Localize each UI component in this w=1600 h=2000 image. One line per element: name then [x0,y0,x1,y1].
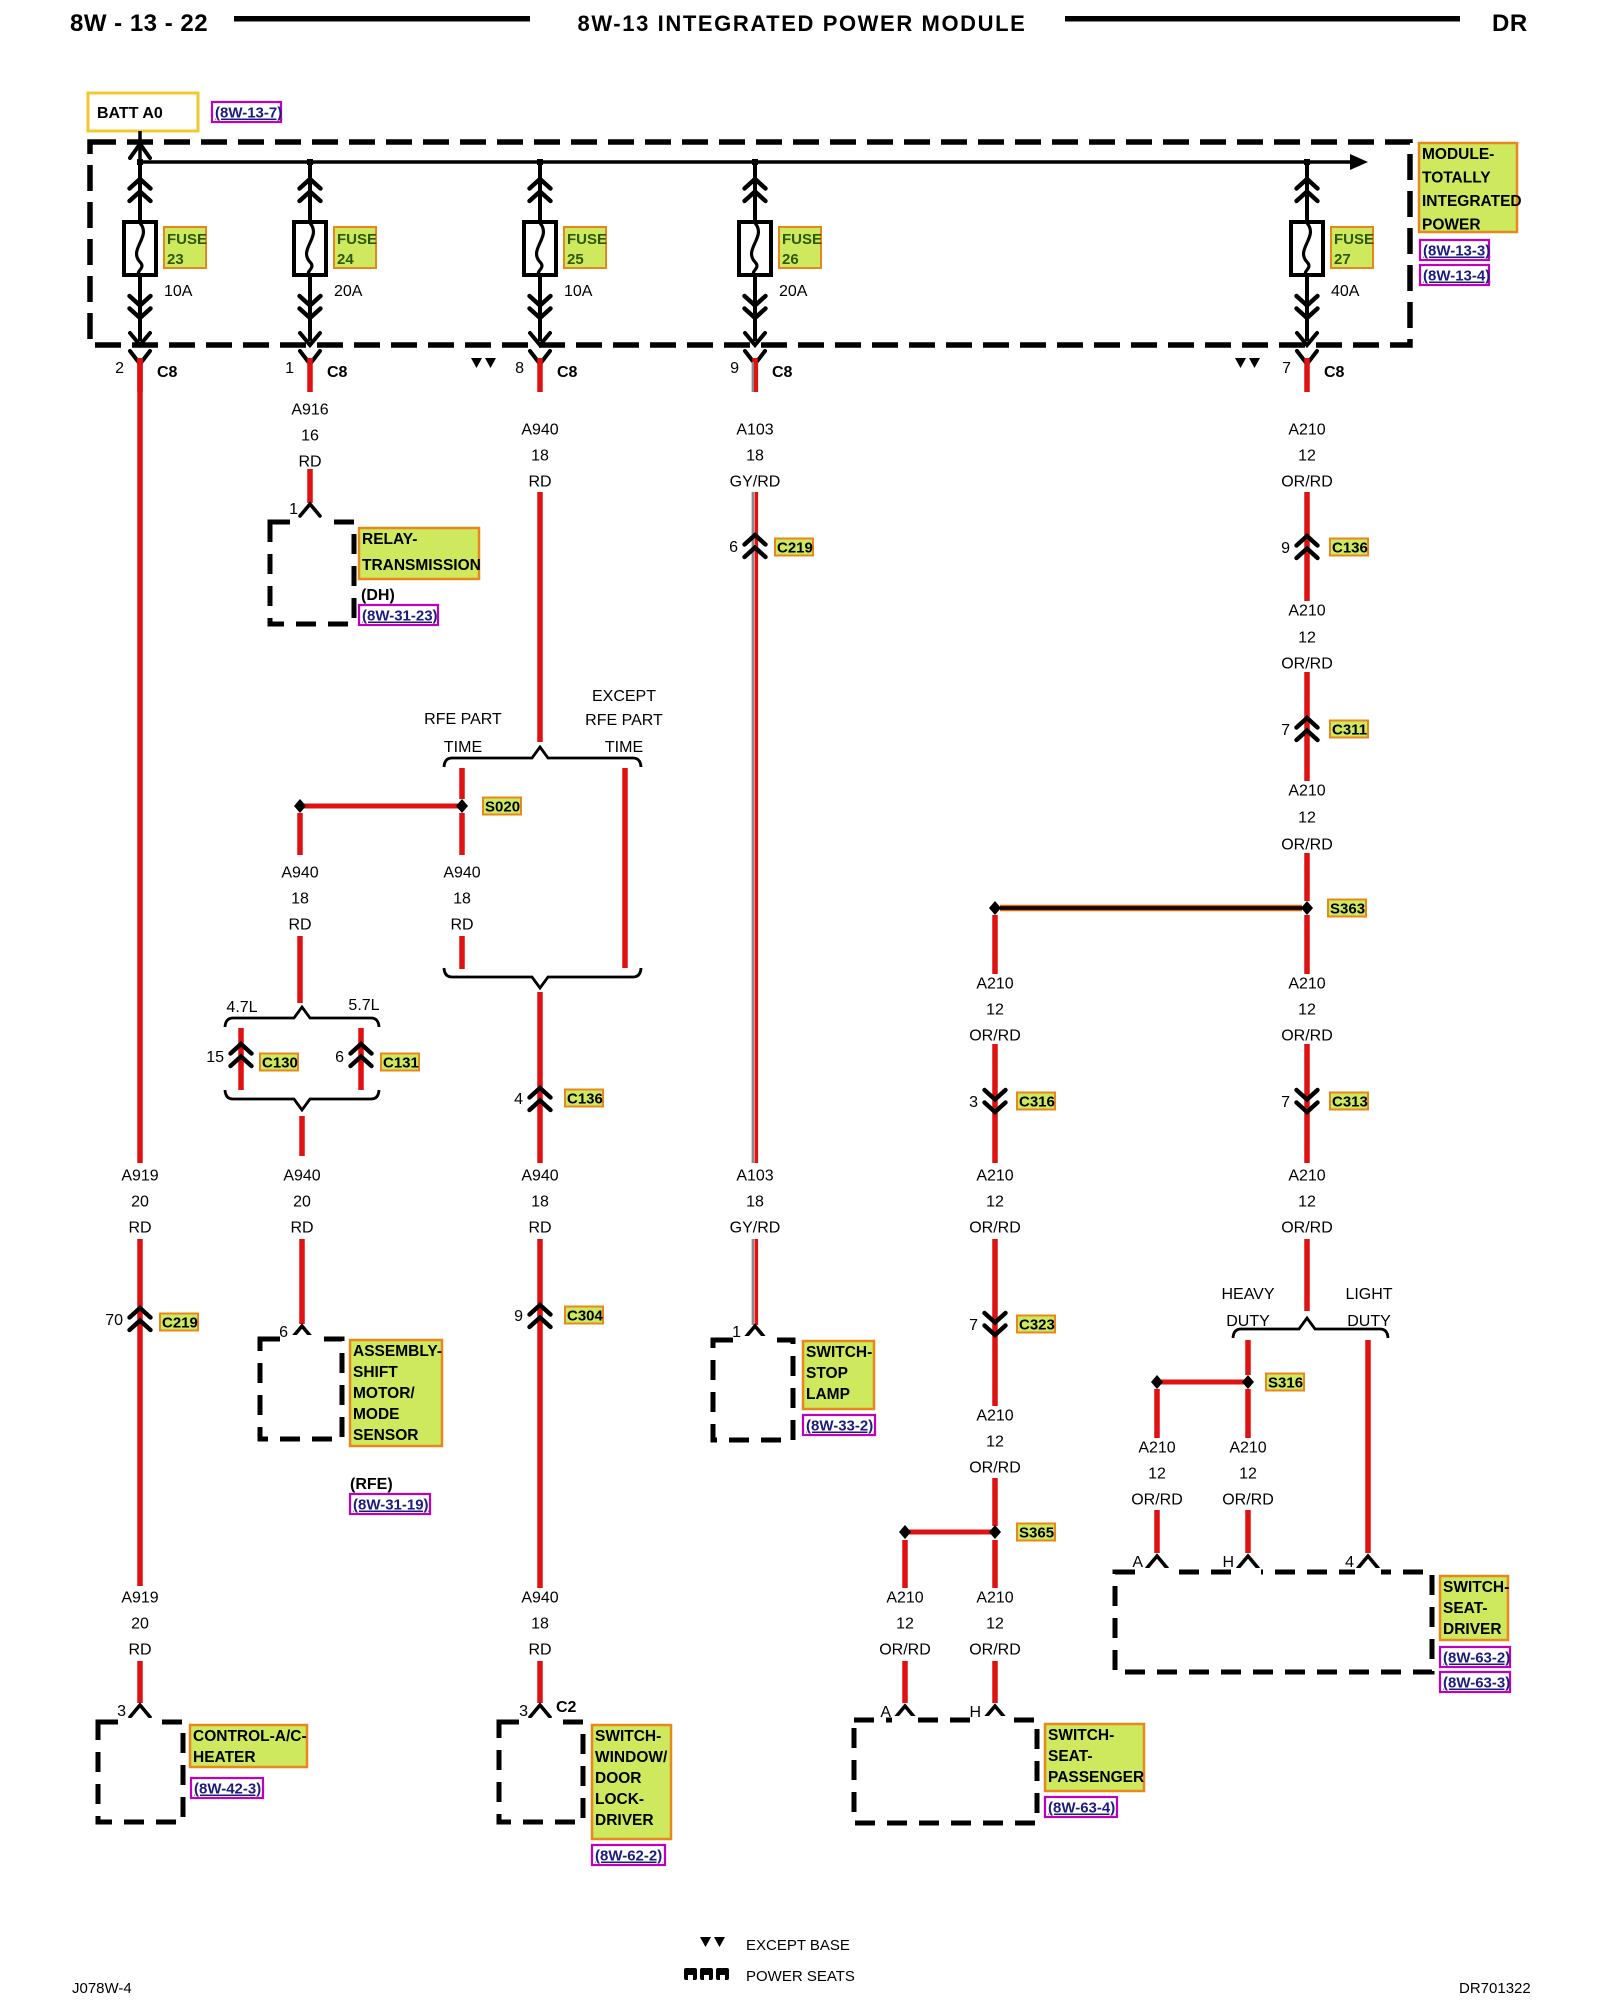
battery feed box BATT A0 [88,93,198,131]
svg-text:(8W-13-4): (8W-13-4) [1423,268,1490,285]
arrow out of module at fuse 25 [530,333,550,345]
wire stub into control [137,1661,143,1703]
svg-text:2: 2 [115,360,124,377]
svg-text:12: 12 [986,1002,1004,1019]
label SWITCH-SEAT-DRIVER [1440,1576,1508,1640]
svg-text:RD: RD [128,1642,151,1659]
svg-text:A210: A210 [1138,1440,1175,1457]
label ASSEMBLY-SHIFT MOTOR/MODE SENSOR [350,1340,442,1446]
svg-text:FUSE: FUSE [782,231,822,248]
wire A210 below S365 left [902,1540,908,1588]
connector chevrons below fuse 24 [300,296,321,318]
svg-text:A210: A210 [1288,783,1325,800]
connector chevrons above fuse 27 [1297,179,1318,201]
svg-text:RD: RD [298,454,321,471]
svg-text:RFE PART: RFE PART [585,712,663,729]
svg-text:15: 15 [206,1049,224,1066]
svg-text:10A: 10A [564,283,593,300]
svg-text:POWER SEATS: POWER SEATS [746,1968,855,1985]
svg-text:12: 12 [896,1616,914,1633]
svg-text:LOCK-: LOCK- [595,1791,644,1808]
connector chevrons above fuse 24 [300,179,321,201]
wire A940 18 RD below C136 [537,1086,543,1163]
svg-text:9: 9 [730,360,739,377]
link 8W-42-3 [191,1778,263,1798]
svg-text:TRANSMISSION: TRANSMISSION [362,557,481,574]
splice S316 [1157,1380,1248,1385]
brace merge below C130/C131 [225,1090,379,1110]
svg-text:EXCEPT: EXCEPT [592,688,656,705]
wire A940 20 RD to shift motor assembly [299,1239,305,1324]
svg-text:INTEGRATED: INTEGRATED [1422,193,1522,210]
svg-text:4: 4 [1345,1554,1354,1571]
label FUSE 27 [1331,227,1373,268]
wire A919 20 RD (fuse 23 to C219) [137,358,143,1163]
link 8W-13-4 [1420,265,1489,285]
svg-text:RD: RD [128,1220,151,1237]
svg-text:A103: A103 [736,1168,773,1185]
svg-text:SEAT-: SEAT- [1443,1600,1488,1617]
fuse 26 [739,222,771,275]
label SWITCH-WINDOW/DOOR LOCK-DRIVER [592,1725,671,1839]
svg-text:A940: A940 [521,1590,558,1607]
svg-text:26: 26 [782,251,799,268]
brace merge below RFE branches [444,968,641,988]
switch-seat-driver (dashed box) [1115,1572,1432,1672]
svg-text:A210: A210 [1288,603,1325,620]
wire A210 to C316 [992,1044,998,1163]
connector C136 in-line (pin 9) [1297,536,1318,558]
svg-text:C313: C313 [1332,1094,1368,1111]
svg-text:A210: A210 [976,1408,1013,1425]
svg-text:DRIVER: DRIVER [1443,1621,1502,1638]
svg-text:RD: RD [528,474,551,491]
svg-text:A210: A210 [976,976,1013,993]
svg-text:RD: RD [288,917,311,934]
svg-text:A210: A210 [1229,1440,1266,1457]
svg-text:FUSE: FUSE [1334,231,1374,248]
svg-text:GY/RD: GY/RD [730,474,781,491]
wire: fuse 25 feed [538,162,542,341]
svg-text:RFE PART: RFE PART [424,711,502,728]
svg-text:C311: C311 [1332,722,1367,739]
label CONTROL-A/C-HEATER [190,1725,307,1767]
svg-text:C316: C316 [1019,1094,1055,1111]
svg-text:18: 18 [531,1194,549,1211]
svg-text:(8W-63-2): (8W-63-2) [1443,1650,1510,1667]
svg-text:12: 12 [986,1194,1004,1211]
svg-text:OR/RD: OR/RD [879,1642,931,1659]
svg-text:C8: C8 [557,364,578,381]
fuse 27 [1291,222,1323,275]
wire below RFE merge [537,992,543,1086]
svg-text:TIME: TIME [444,739,482,756]
module - totally integrated power (dashed outline) [90,142,1410,345]
svg-text:C8: C8 [327,364,348,381]
wire A940 18 RD to C304 [537,1239,543,1588]
wire into passenger seat pin H [992,1661,998,1703]
svg-text:C8: C8 [772,364,793,381]
svg-text:A940: A940 [283,1168,320,1185]
except-base marker at pin 7 [1235,358,1260,368]
connector C8 pin 2 [130,351,150,364]
label FUSE 26 [779,227,821,268]
control-A/C-heater (dashed box) [98,1722,183,1822]
svg-text:(8W-42-3): (8W-42-3) [194,1781,261,1798]
pin 6 of shift motor assembly [292,1326,312,1338]
svg-text:SWITCH-: SWITCH- [1048,1727,1114,1744]
assembly-shift motor/mode sensor (dashed box) [260,1339,342,1439]
svg-text:A940: A940 [521,1168,558,1185]
svg-text:18: 18 [531,448,549,465]
svg-text:18: 18 [531,1616,549,1633]
switch-seat-passenger (dashed box) [854,1720,1037,1823]
arrow out of module at fuse 27 [1297,333,1317,345]
svg-text:12: 12 [1298,448,1316,465]
svg-text:RD: RD [290,1220,313,1237]
splice S365 [905,1530,995,1535]
wire A103 to C219 [752,492,754,1163]
svg-text:C131: C131 [383,1055,419,1072]
wire below engine merge [299,1116,305,1156]
wire A210 to splice S365 [992,1478,998,1526]
svg-text:27: 27 [1334,251,1351,268]
svg-text:RD: RD [528,1642,551,1659]
svg-text:1: 1 [289,501,298,518]
pin 3 of A/C heater control [130,1705,150,1717]
svg-text:18: 18 [291,891,309,908]
pin 4 of driver seat switch [1358,1556,1378,1568]
svg-text:5.7L: 5.7L [348,997,379,1014]
label SWITCH-STOP LAMP [803,1341,874,1409]
svg-text:1: 1 [285,360,294,377]
svg-text:8W - 13 - 22: 8W - 13 - 22 [70,10,208,37]
connector chevrons below fuse 23 [130,296,151,318]
svg-text:RELAY-: RELAY- [362,531,417,548]
link 8W-62-2 [592,1845,665,1865]
connector chevrons above fuse 26 [745,179,766,201]
svg-text:(8W-31-23): (8W-31-23) [362,608,438,625]
junction node on bus at fuse 23 [137,159,143,165]
connector C136 in-line (pin 4) [530,1088,551,1110]
wire A210 to heavy/light split [1304,1239,1310,1311]
svg-text:4.7L: 4.7L [226,999,257,1016]
svg-text:SWITCH-: SWITCH- [806,1344,872,1361]
label FUSE 25 [564,227,606,268]
wire stub into window switch [537,1661,543,1703]
pin 1 of stop lamp switch [745,1326,765,1338]
svg-text:PASSENGER: PASSENGER [1048,1769,1144,1786]
splice S363 [1000,905,1302,912]
svg-text:6: 6 [729,539,738,556]
header rule left [234,16,530,22]
svg-text:OR/RD: OR/RD [1281,1220,1333,1237]
svg-text:EXCEPT BASE: EXCEPT BASE [746,1937,850,1954]
wire heavy-duty branch to S316 [1245,1340,1251,1375]
svg-text:(DH): (DH) [361,587,395,604]
pin H of driver seat switch [1238,1556,1258,1568]
svg-text:TOTALLY: TOTALLY [1422,170,1491,187]
svg-text:A940: A940 [281,865,318,882]
svg-text:A210: A210 [976,1168,1013,1185]
connector C313 in-line (pin 7) [1297,1090,1318,1112]
svg-text:18: 18 [746,448,764,465]
svg-text:9: 9 [1281,540,1290,557]
junction node on bus at fuse 25 [537,159,543,165]
svg-text:1: 1 [732,1324,741,1341]
wire A916 16 RD to relay [307,469,313,503]
svg-text:FUSE: FUSE [567,231,607,248]
brace split heavy/light duty [1233,1318,1388,1338]
junction node on bus at fuse 26 [752,159,758,165]
svg-text:C323: C323 [1019,1317,1055,1334]
svg-text:12: 12 [986,1434,1004,1451]
svg-text:A210: A210 [1288,1168,1325,1185]
svg-text:C304: C304 [567,1308,604,1325]
svg-text:A210: A210 [1288,422,1325,439]
svg-text:A940: A940 [443,865,480,882]
svg-text:A210: A210 [886,1590,923,1607]
wire into passenger seat pin A [902,1661,908,1703]
svg-text:23: 23 [167,251,184,268]
svg-text:18: 18 [453,891,471,908]
wire: fuse 26 feed [753,162,757,341]
svg-text:7: 7 [969,1317,978,1334]
svg-text:A919: A919 [121,1168,158,1185]
wire A210 to splice S363 [1304,853,1310,901]
svg-text:12: 12 [1148,1466,1166,1483]
svg-text:MOTOR/: MOTOR/ [353,1385,415,1402]
svg-text:S365: S365 [1019,1525,1054,1542]
wire RFE-part-time branch upper [459,768,465,799]
connector C8 pin 1 [300,351,320,364]
svg-text:OR/RD: OR/RD [969,1460,1021,1477]
svg-text:C219: C219 [777,540,813,557]
label FUSE 23 [164,227,206,268]
svg-text:A940: A940 [521,422,558,439]
svg-text:STOP: STOP [806,1365,848,1382]
pin H of passenger seat switch [985,1706,1005,1718]
svg-text:(8W-13-7): (8W-13-7) [215,105,282,122]
svg-text:16: 16 [301,428,319,445]
svg-text:DR701322: DR701322 [1459,1980,1531,1997]
svg-text:POWER: POWER [1422,217,1481,234]
svg-text:7: 7 [1281,1094,1290,1111]
wire A210 to C311 [1304,672,1310,781]
link 8W-63-2 [1440,1647,1510,1667]
connector chevrons below fuse 26 [745,296,766,318]
except-base marker at pin 8 [471,358,496,368]
wire to 4.7L/5.7L split [297,936,303,1003]
svg-text:OR/RD: OR/RD [1222,1492,1274,1509]
connector C8 pin 9 [745,351,765,364]
svg-text:C130: C130 [262,1055,298,1072]
svg-text:SEAT-: SEAT- [1048,1748,1093,1765]
switch-stop lamp (dashed box) [713,1340,793,1440]
svg-text:12: 12 [986,1616,1004,1633]
bus arrowhead [1350,154,1368,170]
svg-text:4: 4 [514,1091,523,1108]
svg-text:20: 20 [293,1194,311,1211]
wire A210 to C136 [1304,492,1310,601]
svg-text:40A: 40A [1331,283,1360,300]
wire A940 18 RD below S020 right [459,813,465,855]
wire: fuse 27 feed [1305,162,1309,341]
wire except-RFE branch [622,768,628,968]
svg-text:A210: A210 [1288,976,1325,993]
svg-text:6: 6 [279,1324,288,1341]
label RELAY-TRANSMISSION [359,528,479,579]
svg-text:20: 20 [131,1194,149,1211]
relay-transmission (dashed box) [270,522,354,624]
link 8W-13-3 [1420,240,1489,260]
svg-text:7: 7 [1282,360,1291,377]
link 8W-63-4 [1045,1797,1117,1817]
svg-text:H: H [969,1704,981,1721]
svg-text:LAMP: LAMP [806,1386,850,1403]
svg-text:7: 7 [1281,722,1290,739]
header rule right [1065,16,1460,22]
svg-text:(8W-63-4): (8W-63-4) [1048,1800,1115,1817]
svg-text:MODE: MODE [353,1406,400,1423]
brace split 4.7L/5.7L [225,1007,379,1027]
connector C316 in-line (pin 3) [985,1090,1006,1112]
wire: fuse 23 feed [138,162,142,341]
svg-text:(8W-62-2): (8W-62-2) [595,1848,662,1865]
svg-text:GY/RD: GY/RD [730,1220,781,1237]
svg-text:OR/RD: OR/RD [969,1642,1021,1659]
svg-text:OR/RD: OR/RD [969,1220,1021,1237]
wire A103 to stop lamp switch [752,1239,754,1325]
wire into seat driver pin H [1245,1510,1251,1553]
wire to merge brace (S020 right) [459,936,465,969]
wire A210 below S316 right [1245,1389,1251,1438]
arrow out of module at fuse 24 [300,333,320,345]
fuse 24 [294,222,326,275]
svg-text:SENSOR: SENSOR [353,1427,418,1444]
wire A210 to C313 [1304,1044,1310,1163]
svg-text:C2: C2 [556,1699,577,1716]
wire: fuse 24 feed [308,162,312,341]
svg-text:C136: C136 [567,1091,603,1108]
pin A of driver seat switch [1147,1556,1167,1568]
svg-text:HEATER: HEATER [193,1749,256,1766]
connector chevrons above fuse 23 [130,179,151,201]
svg-text:12: 12 [1298,630,1316,647]
svg-text:DRIVER: DRIVER [595,1812,654,1829]
svg-text:SWITCH-: SWITCH- [1443,1579,1509,1596]
svg-text:6: 6 [335,1049,344,1066]
wire A919 20 RD (C219 to A/C heater control) [137,1239,143,1586]
svg-text:C136: C136 [1332,540,1368,557]
fuse 25 [524,222,556,275]
svg-text:C8: C8 [157,364,178,381]
svg-text:9: 9 [514,1308,523,1325]
junction node on bus at fuse 27 [1304,159,1310,165]
wire A103 18 GY/RD stub from C8 pin 9 [752,362,754,392]
svg-text:3: 3 [969,1094,978,1111]
connector C219 in-line (pin 6) [745,535,766,557]
switch-window/door lock-driver (dashed box) [499,1722,583,1822]
svg-text:20A: 20A [779,283,808,300]
svg-text:10A: 10A [164,283,193,300]
svg-text:DOOR: DOOR [595,1770,642,1787]
brace split RFE / except-RFE [444,747,641,767]
pin A of passenger seat switch [895,1706,915,1718]
svg-text:(8W-33-2): (8W-33-2) [806,1418,873,1435]
legend except-base marker [700,1937,725,1947]
label FUSE 24 [334,227,376,268]
svg-text:FUSE: FUSE [337,231,377,248]
wire A210 below S316 left [1154,1389,1160,1438]
wire A210 below S365 right [992,1540,998,1588]
link 8W-13-7 [212,102,281,122]
svg-text:OR/RD: OR/RD [1281,656,1333,673]
pin 1 of transmission relay [300,504,320,516]
connector C219 in-line (pin 70) [130,1308,151,1330]
svg-text:C219: C219 [162,1315,198,1332]
link 8W-63-3 [1440,1672,1510,1692]
svg-text:(8W-31-19): (8W-31-19) [353,1497,429,1514]
svg-text:TIME: TIME [605,739,643,756]
svg-text:A: A [1132,1554,1143,1571]
svg-text:OR/RD: OR/RD [1281,1028,1333,1045]
splice S020 [300,804,462,809]
svg-text:12: 12 [1298,1194,1316,1211]
svg-text:HEAVY: HEAVY [1221,1286,1274,1303]
svg-text:OR/RD: OR/RD [1131,1492,1183,1509]
svg-text:BATT A0: BATT A0 [97,105,163,122]
svg-text:LIGHT: LIGHT [1345,1286,1392,1303]
module label: MODULE-TOTALLY INTEGRATED POWER [1419,143,1517,232]
svg-text:SWITCH-: SWITCH- [595,1728,661,1745]
svg-text:(8W-63-3): (8W-63-3) [1443,1675,1510,1692]
svg-text:12: 12 [1298,810,1316,827]
wire A210 below S363 right [1304,915,1310,974]
svg-text:OR/RD: OR/RD [969,1028,1021,1045]
connector C304 in-line (pin 9) [530,1305,551,1327]
bus wire inside module [140,160,1352,164]
svg-text:CONTROL-A/C-: CONTROL-A/C- [193,1728,307,1745]
svg-text:J078W-4: J078W-4 [72,1980,132,1997]
connector C131 (pin 6) [351,1044,372,1066]
svg-text:A919: A919 [121,1590,158,1607]
svg-text:8: 8 [515,360,524,377]
svg-text:12: 12 [1298,1002,1316,1019]
connector C323 in-line (pin 7) [985,1313,1006,1335]
svg-text:WINDOW/: WINDOW/ [595,1749,668,1766]
svg-text:A916: A916 [291,402,328,419]
label SWITCH-SEAT-PASSENGER [1045,1724,1144,1791]
svg-text:H: H [1222,1554,1234,1571]
svg-text:25: 25 [567,251,584,268]
svg-text:OR/RD: OR/RD [1281,474,1333,491]
svg-text:S316: S316 [1268,1375,1303,1392]
connector C8 pin 8 [530,351,550,364]
connector chevrons above fuse 25 [530,179,551,201]
junction node on bus at fuse 24 [307,159,313,165]
svg-text:20A: 20A [334,283,363,300]
svg-text:24: 24 [337,251,354,268]
connector C8 pin 7 [1297,351,1317,364]
svg-text:A210: A210 [976,1590,1013,1607]
wire: battery feed A0 into module [138,131,142,163]
svg-text:DR: DR [1492,10,1528,37]
link 8W-31-23 [359,605,438,625]
arrow out of module at fuse 26 [745,333,765,345]
svg-text:S363: S363 [1330,901,1365,918]
svg-text:18: 18 [746,1194,764,1211]
